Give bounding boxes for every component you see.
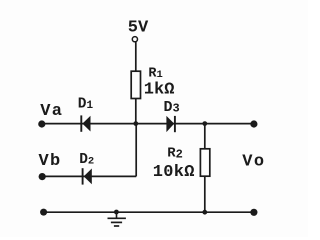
label Vo — [242, 152, 265, 171]
svg-text:1kΩ: 1kΩ — [144, 81, 175, 100]
5V supply terminal (open circle) — [132, 37, 137, 42]
label D1 — [78, 96, 94, 112]
value label 10kOhm for R2 — [153, 163, 195, 182]
terminal node bottom-left (filled dot) — [40, 209, 47, 216]
resistor R1 — [131, 71, 140, 98]
terminal node Va (filled dot) — [38, 120, 45, 127]
wire: R2 bottom lead to ground rail — [204, 176, 206, 212]
svg-text:D3: D3 — [164, 99, 180, 116]
svg-text:Vo: Vo — [242, 152, 265, 171]
svg-text:5V: 5V — [128, 18, 149, 37]
wire: bottom ground rail at y=212.2 — [44, 211, 254, 213]
junction node: ground symbol tap on rail — [114, 210, 119, 215]
svg-text:D1: D1 — [78, 96, 94, 112]
terminal node Vo (filled dot) — [250, 120, 257, 127]
wire: R2 top lead from node B — [204, 124, 206, 149]
label Va — [40, 102, 63, 121]
junction node: R2 bottom on ground rail — [202, 210, 207, 215]
junction node A (R1 / D1 / D2 riser / D3) — [133, 121, 138, 126]
ground — [108, 212, 126, 226]
wire: Vb horizontal segment from Vb terminal to vertical riser — [42, 175, 136, 177]
svg-text:R2: R2 — [167, 145, 183, 161]
svg-text:D2: D2 — [79, 152, 94, 168]
diode D2 (cathode bar at left, pointing left) — [83, 168, 92, 184]
wire: vertical riser joining D2 output up to node A — [135, 124, 137, 177]
value label 1kOhm for R1 — [144, 81, 175, 100]
label R2 — [167, 145, 183, 161]
wire: 5V terminal down to R1 top — [135, 42, 137, 71]
junction node B (D3 / R2 / Vo) — [202, 121, 207, 126]
label Vb — [39, 152, 62, 171]
wire: R1 bottom lead down to node A — [135, 99, 137, 124]
svg-text:Va: Va — [40, 102, 63, 121]
label D3 — [164, 99, 180, 116]
wire: main horizontal Va-to-Vo net at y=123.6 — [42, 123, 254, 125]
svg-text:Vb: Vb — [39, 152, 62, 171]
diode D1 (cathode bar at left, pointing left) — [81, 115, 90, 131]
label 5V — [128, 18, 149, 37]
diode D3 (pointing right, cathode bar at right) — [166, 116, 175, 132]
label D2 — [79, 152, 94, 168]
terminal node bottom-right (filled dot) — [250, 209, 257, 216]
svg-text:10kΩ: 10kΩ — [153, 163, 195, 182]
terminal node Vb (filled dot) — [39, 173, 46, 180]
svg-text:R1: R1 — [148, 66, 162, 81]
resistor R2 — [200, 149, 209, 176]
label R1 — [148, 66, 162, 81]
